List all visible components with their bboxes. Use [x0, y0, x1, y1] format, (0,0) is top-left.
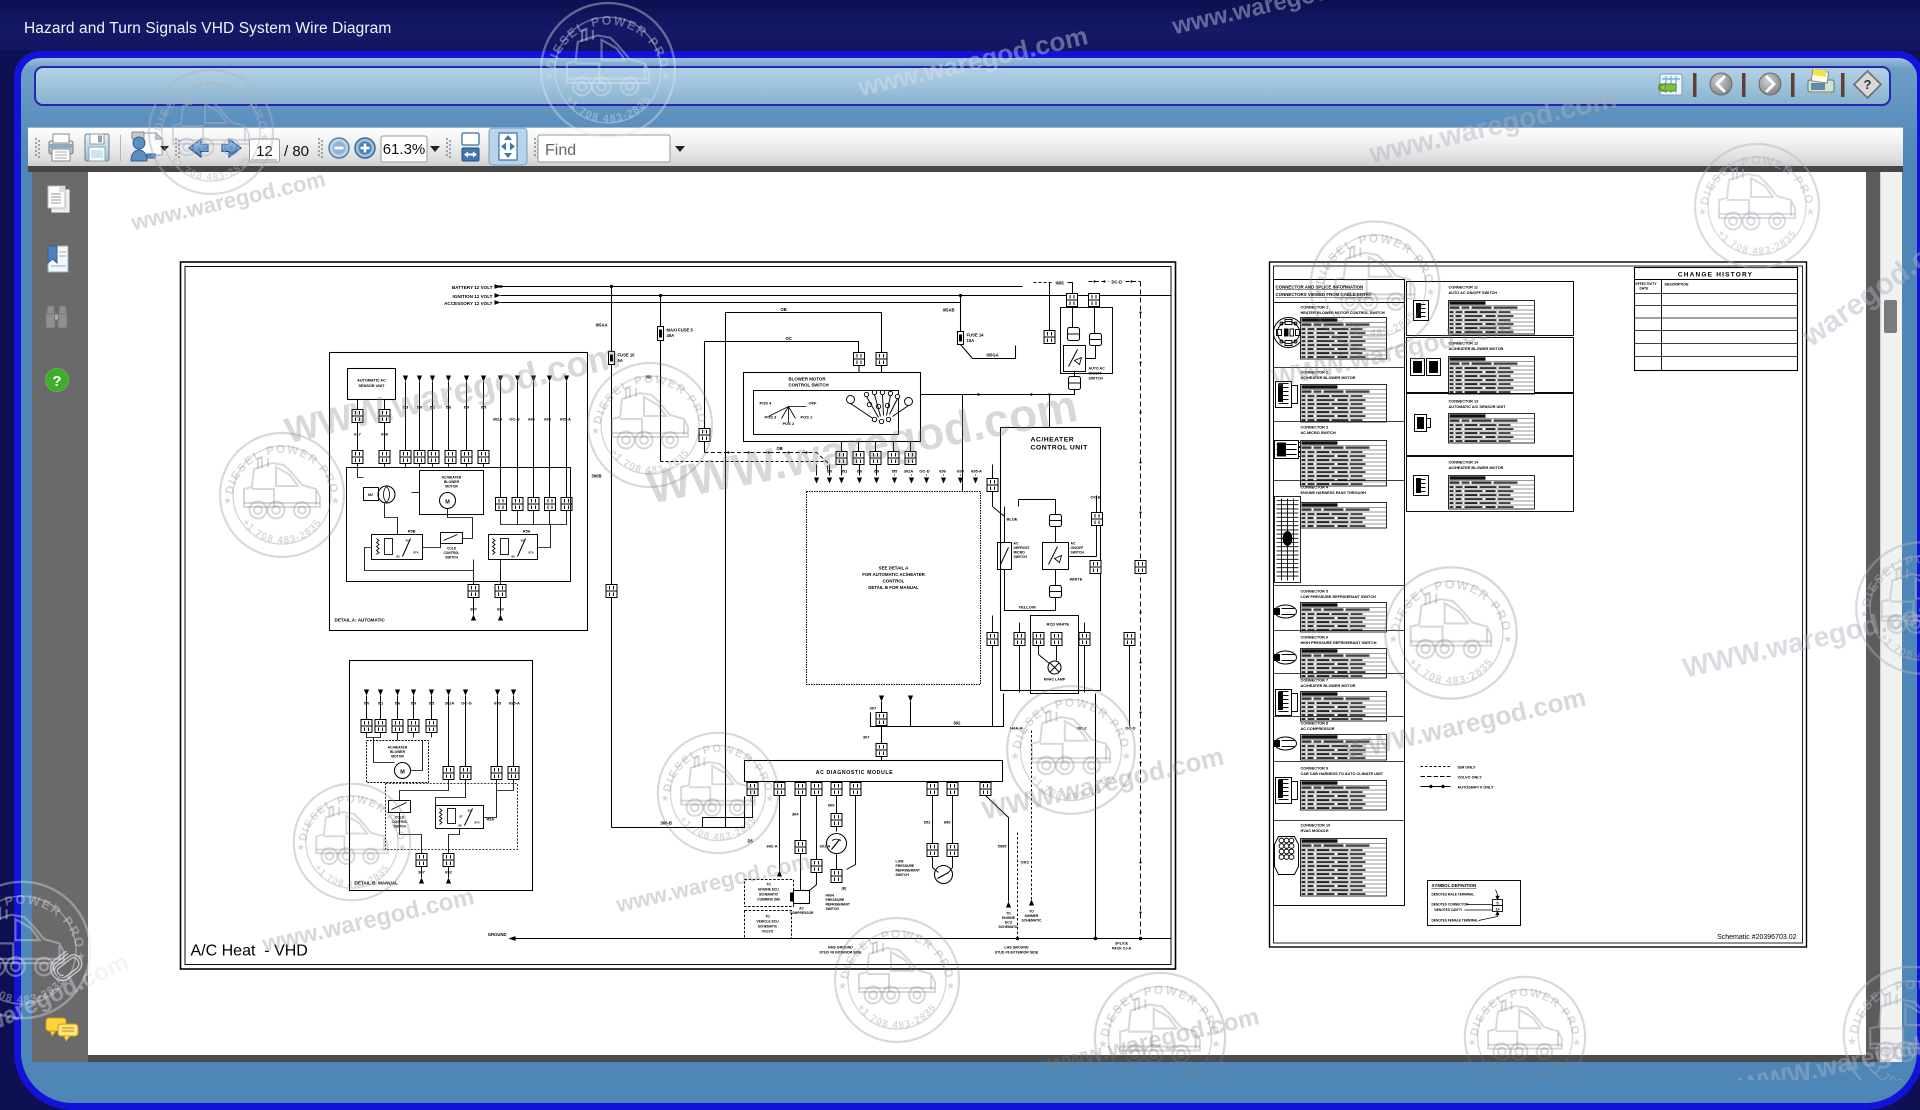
connector pair on OC-D line [1135, 561, 1146, 574]
connector info header box [1274, 280, 1405, 303]
svg-text:R5B: R5B [408, 530, 416, 534]
auto AC on/off switch [1064, 346, 1086, 372]
wire 609 high pressure [836, 796, 838, 814]
sidebar icons [32, 172, 88, 1062]
rotary switch contacts [847, 390, 913, 423]
svg-text:CONNECTOR 8: CONNECTOR 8 [1301, 722, 1329, 726]
cold control switch detail B [389, 801, 411, 813]
svg-text:300B: 300B [591, 474, 601, 479]
cold control switch detail A [441, 533, 463, 544]
svg-text:609: 609 [828, 803, 835, 808]
blower motor box detail A [420, 471, 484, 515]
svg-text:AC DIAGNOSTIC MODULE: AC DIAGNOSTIC MODULE [816, 770, 893, 776]
symbol definition box [1428, 881, 1521, 926]
junction battery/fuse10 [610, 285, 613, 288]
svg-text:HIGH PRESSURE REFRIGERANT SWIT: HIGH PRESSURE REFRIGERANT SWITCH [1301, 641, 1377, 645]
watermark stamp [835, 918, 959, 1042]
content: sidebar [32, 172, 88, 1062]
svg-text:VOLVO: VOLVO [762, 930, 774, 934]
svg-text:DENOTES CONNECTOR: DENOTES CONNECTOR [1432, 903, 1469, 907]
svg-text:OC-G: OC-G [461, 701, 471, 706]
svg-text:61.3%: 61.3% [383, 141, 426, 158]
svg-text:POS 4: POS 4 [760, 401, 773, 406]
svg-text:AC/HEATER BLOWER MOTOR: AC/HEATER BLOWER MOTOR [1449, 466, 1504, 470]
blower motor control switch box [744, 373, 921, 442]
watermark stamp [1311, 222, 1440, 351]
svg-text:CONNECTOR 7: CONNECTOR 7 [1301, 679, 1329, 683]
svg-text:ON/OFF: ON/OFF [1089, 372, 1103, 376]
svg-text:CONNECTOR 14: CONNECTOR 14 [1449, 461, 1480, 465]
svg-text:AC COMPRESSOR: AC COMPRESSOR [1301, 727, 1335, 731]
connector pair on 300B wire [606, 585, 617, 598]
svg-text:DC-D: DC-D [1112, 280, 1122, 285]
DETAIL B box [350, 661, 533, 891]
connector pairs below module [747, 783, 758, 796]
relay R5B [372, 535, 423, 560]
long dash-dot bus DC-D [1140, 282, 1142, 939]
connector entry CONNECTOR 14 (right column) [1407, 457, 1574, 512]
watermark stamp [0, 882, 90, 1018]
svg-text:PRESSURE: PRESSURE [896, 864, 915, 868]
svg-text:AC: AC [1071, 542, 1076, 546]
dashed box TO ENGINE ECU CUMMINS [745, 880, 794, 907]
svg-text:AUTO AC ON/OFF SWITCH: AUTO AC ON/OFF SWITCH [1449, 291, 1498, 295]
svg-text:300-B: 300-B [661, 821, 672, 826]
svg-text:CONNECTOR 6: CONNECTOR 6 [1301, 636, 1329, 640]
wire 699 [952, 796, 954, 844]
left column box [1274, 280, 1405, 906]
automatic AC sensor unit U-A1 [348, 369, 396, 400]
connector pair on I05GA [1044, 331, 1055, 344]
svg-text:307: 307 [863, 735, 870, 740]
AC diagnostic module U2 [745, 761, 1003, 782]
svg-text:STUD #8 INTERIOR SIDE: STUD #8 INTERIOR SIDE [819, 951, 862, 955]
svg-text:SEE DETAIL A: SEE DETAIL A [879, 566, 910, 571]
svg-text:MAXI FUSE 5: MAXI FUSE 5 [667, 328, 694, 333]
wire fuse14 drop [960, 296, 962, 332]
svg-text:87: 87 [460, 815, 464, 819]
svg-text:CONTROL SWITCH: CONTROL SWITCH [789, 383, 829, 388]
separator [1274, 716, 1405, 718]
svg-text:12: 12 [256, 143, 273, 160]
wire bus y222 [921, 390, 1075, 395]
svg-text:695: 695 [957, 469, 964, 474]
svg-text:AUTOMATIC A/C SENSOR UNIT: AUTOMATIC A/C SENSOR UNIT [1449, 405, 1507, 409]
band right icons [1650, 66, 1890, 104]
barrel below A [1068, 328, 1080, 341]
svg-text:30: 30 [406, 539, 410, 543]
svg-text:OC-D: OC-D [919, 469, 929, 474]
wire drop 1 left [703, 796, 753, 828]
connector pair above switch box A [854, 353, 865, 366]
svg-text:BATTERY 12 VOLT: BATTERY 12 VOLT [452, 285, 493, 290]
svg-text:5: 5 [1497, 901, 1499, 905]
inner control region detail A [347, 468, 571, 582]
AC defrost micro switch [998, 543, 1012, 570]
svg-text:BLOWER: BLOWER [390, 750, 406, 754]
connector entry CONNECTOR 13 (right column) [1407, 394, 1574, 456]
fuse FUSE 10 5A [609, 352, 615, 365]
svg-text:304: 304 [792, 812, 799, 817]
svg-text:I695: I695 [1056, 281, 1065, 286]
svg-text:WHITE: WHITE [1070, 577, 1083, 582]
svg-text:87A: 87A [475, 821, 480, 825]
svg-text:MVAC LAMP: MVAC LAMP [1044, 678, 1066, 682]
svg-text:699: 699 [944, 820, 951, 825]
input arrows detail B [364, 690, 516, 696]
svg-text:SYMBOL DEFINITION: SYMBOL DEFINITION [1432, 883, 1477, 888]
fan symbol detail A [378, 486, 395, 503]
barrel below B [1090, 334, 1102, 346]
connector entry CONNECTOR 4 [1275, 486, 1387, 583]
svg-text:VOLVO ONLY: VOLVO ONLY [1458, 776, 1483, 780]
svg-text:652: 652 [924, 820, 931, 825]
svg-text:686: 686 [528, 417, 535, 422]
connector pair on OC drop [699, 429, 710, 442]
svg-text:AUTOMATIC AC: AUTOMATIC AC [357, 379, 386, 383]
svg-text:5A: 5A [618, 358, 623, 363]
svg-text:RCD WHITE: RCD WHITE [1047, 622, 1070, 627]
svg-text:TO: TO [765, 915, 770, 919]
svg-text:CONNECTOR 10: CONNECTOR 10 [1301, 824, 1331, 828]
connector entry CONNECTOR 10 [1275, 824, 1387, 897]
svg-text:307: 307 [870, 706, 877, 711]
svg-text:CONNECTOR 13: CONNECTOR 13 [1449, 400, 1479, 404]
wire 692-A [779, 796, 781, 871]
wire I05GA [961, 345, 1016, 359]
svg-text:I05AA: I05AA [596, 323, 608, 328]
svg-text:BLOWER MOTOR: BLOWER MOTOR [789, 377, 827, 382]
svg-text:AUTO AC: AUTO AC [1089, 367, 1106, 371]
svg-text:30: 30 [468, 809, 472, 813]
bottom connector 307 detail B [416, 854, 427, 867]
watermark stamp [658, 733, 778, 853]
connector pair 307 lower [876, 744, 887, 757]
svg-text:I59: I59 [464, 405, 470, 410]
dashed box TO VEHICLE ECU VOLVO [745, 911, 792, 939]
bottom connector 652 detail B [443, 854, 454, 867]
svg-text:EFFECTIVITY: EFFECTIVITY [1636, 282, 1658, 286]
wire right of gauge [847, 796, 856, 870]
svg-text:SENSOR UNIT: SENSOR UNIT [359, 384, 386, 388]
wire accessory rail [501, 302, 961, 304]
svg-text:CONNECTOR 9: CONNECTOR 9 [1301, 767, 1329, 771]
watermark stamp [1844, 967, 1920, 1103]
svg-text:DEFROST: DEFROST [1014, 546, 1031, 550]
svg-text:DIMMER: DIMMER [1025, 914, 1039, 918]
svg-text:M: M [400, 770, 405, 776]
svg-text:STUD #8 EXTERIOR SIDE: STUD #8 EXTERIOR SIDE [995, 951, 1039, 955]
svg-text:PACK CJ-A: PACK CJ-A [1112, 947, 1132, 951]
wire 304 to compressor [800, 796, 802, 841]
svg-text:?: ? [52, 373, 61, 390]
high pressure refrigerant switch gauge [827, 834, 847, 854]
svg-text:H4A-H: H4A-H [1010, 726, 1022, 731]
svg-text:ACCESSORY 12 VOLT: ACCESSORY 12 VOLT [444, 301, 493, 306]
connector entry CONNECTOR 11 (right column) [1407, 282, 1574, 336]
connector pair 307 upper [876, 713, 887, 726]
wires down to auto ac switch [1016, 283, 1095, 359]
svg-text:DENOTES CAVITY: DENOTES CAVITY [1435, 908, 1464, 912]
svg-text:AUTOSHIFT II ONLY: AUTOSHIFT II ONLY [1458, 786, 1495, 790]
fuse MAXI FUSE 5 40A [658, 327, 664, 341]
right sheet frame outer [1270, 262, 1807, 947]
svg-text:30: 30 [521, 539, 525, 543]
svg-text:40A: 40A [667, 333, 675, 338]
right sheet frame inner line [1274, 266, 1803, 943]
svg-text:SPLICE: SPLICE [1115, 942, 1129, 946]
svg-text:OKC: OKC [1021, 860, 1030, 865]
page [88, 172, 1866, 1055]
svg-text:SCHEMATIC: SCHEMATIC [759, 893, 779, 897]
watermark stamp [1385, 567, 1516, 698]
scrollbar [1880, 172, 1902, 1062]
wires below switch box [842, 442, 911, 452]
watermark stamp [1007, 686, 1135, 814]
wire labels detail A row1 [403, 405, 487, 410]
svg-text:302A: 302A [493, 417, 503, 422]
svg-text:SWITCH: SWITCH [1071, 551, 1085, 555]
watermark stamp [294, 784, 411, 901]
svg-text:ECU: ECU [1005, 921, 1013, 925]
svg-text:SWITCH: SWITCH [1014, 555, 1028, 559]
relay R5A detail B [436, 806, 484, 829]
connector entry CONNECTOR 3 [1275, 426, 1387, 487]
svg-text:692-A: 692-A [767, 844, 778, 849]
svg-text:BLUE: BLUE [1007, 517, 1018, 522]
connector entry CONNECTOR 7 [1276, 679, 1387, 722]
connector row detail B [361, 720, 372, 733]
wire ignition rail [501, 295, 1172, 297]
svg-text:MOTOR: MOTOR [391, 755, 404, 759]
svg-text:SWITCH: SWITCH [445, 556, 458, 560]
svg-text:HEATER BLOWER MOTOR CONTROL SW: HEATER BLOWER MOTOR CONTROL SWITCH [1301, 311, 1385, 315]
svg-text:COLD: COLD [447, 547, 457, 551]
AC/HEATER control unit big box [807, 492, 981, 685]
input arrows detail A [403, 376, 569, 382]
wire 301-A [816, 796, 818, 860]
separator [1274, 820, 1405, 822]
page margins [1866, 172, 1880, 1062]
barrel below on/off [1050, 586, 1062, 598]
svg-text:CONTROL: CONTROL [883, 579, 905, 584]
relay R5A (auto) [489, 535, 538, 560]
svg-text:SWITCH: SWITCH [896, 873, 910, 877]
connector pair on OC-2 line [1090, 561, 1101, 574]
svg-text:GROUND: GROUND [488, 932, 507, 937]
svg-text:Schematic #20396703.02: Schematic #20396703.02 [1717, 934, 1796, 941]
svg-text:CONTROL UNIT: CONTROL UNIT [1031, 445, 1089, 452]
svg-text:692: 692 [954, 721, 962, 726]
svg-text:ISM ONLY: ISM ONLY [1458, 766, 1476, 770]
wire drop I05AA [611, 287, 613, 828]
wire labels row center [827, 469, 982, 474]
svg-text:/ 80: / 80 [284, 143, 309, 160]
AC on/off switch [1043, 543, 1069, 570]
svg-text:5995: 5995 [998, 844, 1008, 849]
wires detail B lower [400, 780, 514, 854]
svg-text:M: M [445, 500, 450, 506]
svg-text:POS 2: POS 2 [783, 421, 796, 426]
DETAIL A box [330, 353, 588, 631]
svg-text:AC/HEATER BLOWER MOTOR: AC/HEATER BLOWER MOTOR [1301, 684, 1356, 688]
connector entry CONNECTOR 12 (right column) [1407, 338, 1574, 395]
wire 307 stack below big box [879, 696, 913, 702]
internal wires detail A [358, 468, 551, 585]
svg-text:DETAIL B FOR MANUAL: DETAIL B FOR MANUAL [868, 585, 919, 590]
svg-text:DENOTES FEMALE TERMINAL: DENOTES FEMALE TERMINAL [1432, 919, 1479, 923]
svg-text:302A: 302A [445, 701, 455, 706]
svg-text:MOTOR: MOTOR [445, 485, 458, 489]
svg-text:698: 698 [381, 432, 388, 437]
wire dashed from maxi fuse to center [661, 461, 828, 463]
svg-text:I05AB: I05AB [943, 308, 955, 313]
watermark stamp [1095, 973, 1225, 1103]
separator [1274, 367, 1405, 369]
svg-text:ENGINE HARNESS PASS THROUGH: ENGINE HARNESS PASS THROUGH [1301, 491, 1367, 495]
svg-text:O3: O3 [403, 405, 409, 410]
svg-text:M2: M2 [368, 493, 373, 497]
svg-text:HVAC MODULE: HVAC MODULE [1301, 829, 1329, 833]
lamp MVAC [1048, 661, 1061, 674]
svg-text:FUSE 14: FUSE 14 [967, 333, 985, 338]
connector entry CONNECTOR 6 [1275, 636, 1387, 679]
svg-text:OC-B: OC-B [509, 417, 519, 422]
right connector pairs detail A [496, 498, 507, 511]
bottom connector 307 detail A [468, 585, 479, 598]
change history table [1635, 268, 1798, 371]
svg-text:AC/HEATER BLOWER MOTOR: AC/HEATER BLOWER MOTOR [1301, 376, 1356, 380]
ground bus [516, 938, 1171, 940]
svg-text:?: ? [1864, 77, 1872, 92]
svg-text:AC MICRO SWITCH: AC MICRO SWITCH [1301, 431, 1336, 435]
svg-text:OFF: OFF [809, 401, 818, 406]
wires sensor columns [357, 400, 359, 451]
schematic sheet frame outer [181, 262, 1176, 969]
svg-text:656: 656 [939, 469, 946, 474]
svg-text:SCHEMATIC: SCHEMATIC [758, 925, 778, 929]
svg-text:CONNECTOR 2: CONNECTOR 2 [1301, 371, 1329, 375]
wire 692 return [871, 694, 1004, 727]
svg-text:YELLOW: YELLOW [1019, 605, 1036, 610]
connector entry CONNECTOR 9 [1276, 767, 1387, 811]
watermark stamp [588, 363, 712, 487]
svg-text:I56: I56 [446, 405, 452, 410]
svg-text:Find: Find [545, 142, 576, 159]
separator [1274, 630, 1405, 632]
svg-text:ENGINE: ENGINE [1002, 916, 1016, 920]
wire battery rail [501, 286, 1023, 288]
watermark stamp [1695, 144, 1819, 268]
wire maxi fuse drop [660, 296, 662, 462]
svg-text:MICRO: MICRO [1014, 551, 1026, 555]
wire OB lower dashed [705, 453, 828, 472]
connector pair top right A [1067, 294, 1078, 307]
svg-text:85: 85 [397, 555, 401, 559]
svg-text:PRESSURE: PRESSURE [826, 898, 845, 902]
connector entry CONNECTOR 5 [1275, 590, 1387, 633]
svg-text:OB: OB [777, 446, 783, 451]
svg-text:CONNECTOR 4: CONNECTOR 4 [1301, 486, 1329, 490]
svg-text:TO: TO [1029, 910, 1034, 914]
svg-text:CAB CAB HARNESS TO AUTO CLIMAT: CAB CAB HARNESS TO AUTO CLIMATE UNIT [1301, 772, 1384, 776]
svg-text:REFRIGERANT: REFRIGERANT [896, 869, 921, 873]
svg-text:BLOWER: BLOWER [444, 480, 460, 484]
svg-text:I51: I51 [842, 469, 848, 474]
svg-text:SCHEMATIC: SCHEMATIC [999, 925, 1019, 929]
svg-text:CHANGE HISTORY: CHANGE HISTORY [1678, 272, 1753, 279]
svg-text:TO: TO [1006, 912, 1011, 916]
connector entry CONNECTOR 1 [1274, 306, 1387, 360]
arrows into control unit [817, 465, 976, 476]
svg-text:POS 1: POS 1 [801, 415, 814, 420]
connector pairs right detail B [443, 767, 454, 780]
svg-text:HIGH: HIGH [826, 894, 835, 898]
svg-text:(B): (B) [842, 887, 847, 891]
connector entry CONNECTOR 8 [1275, 722, 1387, 761]
svg-text:CONNECTOR 3: CONNECTOR 3 [1301, 426, 1329, 430]
fuse FUSE 14 10A [958, 332, 964, 345]
svg-text:CONNECTOR 5: CONNECTOR 5 [1301, 590, 1329, 594]
svg-text:TO: TO [766, 883, 771, 887]
separator [1274, 585, 1405, 587]
svg-text:DATE: DATE [1640, 287, 1650, 291]
svg-text:SCHEMATIC: SCHEMATIC [1022, 919, 1042, 923]
separator [1274, 761, 1405, 763]
svg-text:695-A: 695-A [509, 701, 520, 706]
MVAC lamp box [1031, 616, 1079, 694]
svg-text:SWITCH: SWITCH [826, 907, 840, 911]
svg-text:I55: I55 [481, 405, 487, 410]
low pressure refrigerant switch gauge [935, 866, 953, 884]
wire 300-B horizontal [612, 797, 745, 828]
barrel below switch [1069, 377, 1081, 390]
svg-text:ON/OFF: ON/OFF [1071, 546, 1084, 550]
watermark stamp [541, 3, 675, 137]
connector pair OC-B [1092, 513, 1103, 526]
connector row mvac [987, 633, 998, 646]
svg-text:IGNITION 12 VOLT: IGNITION 12 VOLT [453, 294, 493, 299]
svg-text:AC/HEATER: AC/HEATER [388, 746, 408, 750]
legend ISM ONLY [1421, 766, 1476, 770]
ac/heater control unit container [1001, 428, 1101, 691]
watermark stamp [1856, 542, 1920, 673]
svg-text:LHS GROUND: LHS GROUND [1004, 946, 1029, 950]
svg-text:AC: AC [1014, 542, 1019, 546]
separator [1274, 421, 1405, 423]
toolbar [28, 127, 1903, 167]
svg-text:CUMMINS ISM: CUMMINS ISM [757, 898, 780, 902]
svg-text:POS 3: POS 3 [765, 415, 778, 420]
svg-text:CONNECTORS VIEWED FROM CABLE E: CONNECTORS VIEWED FROM CABLE ENTRY [1276, 292, 1372, 297]
svg-text:DESCRIPTION: DESCRIPTION [1665, 283, 1689, 287]
schematic page SVG [88, 172, 1866, 1055]
svg-text:AC: AC [799, 907, 804, 911]
connector pair 617 [352, 410, 363, 423]
svg-text:I50: I50 [417, 405, 423, 410]
svg-text:CONNECTOR 11: CONNECTOR 11 [1449, 286, 1478, 290]
svg-text:302A: 302A [904, 469, 914, 474]
connector row detail A [352, 451, 363, 464]
svg-text:87A: 87A [414, 551, 419, 555]
svg-text:OC-B: OC-B [1091, 495, 1101, 500]
header band inner box [34, 66, 1891, 106]
svg-text:CONNECTOR AND SPLICE INFORMATI: CONNECTOR AND SPLICE INFORMATION [1276, 285, 1364, 290]
svg-text:86: 86 [459, 824, 463, 828]
svg-text:R5A: R5A [523, 530, 531, 534]
svg-text:A/C Heat - VHD: A/C Heat - VHD [191, 943, 308, 960]
svg-text:RHS GROUND: RHS GROUND [828, 946, 853, 950]
